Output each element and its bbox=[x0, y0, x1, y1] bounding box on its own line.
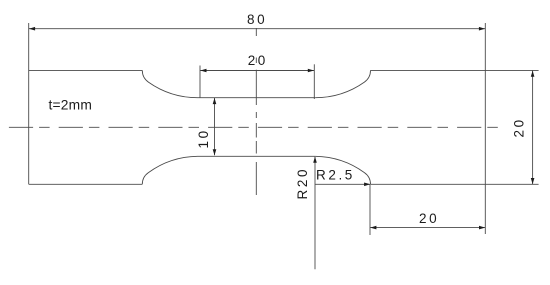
fillet top-left bbox=[142, 70, 197, 97]
gauge bottom edge bbox=[198, 155, 316, 157]
svg-text:10: 10 bbox=[196, 128, 211, 148]
left edge of specimen with dim-80 extension line bbox=[28, 23, 30, 184]
gauge top edge bbox=[198, 97, 316, 99]
vertical centerline dot between digits of 20 bbox=[255, 58, 257, 64]
fillet bottom-left bbox=[142, 156, 197, 184]
svg-text:20: 20 bbox=[248, 53, 268, 68]
dim 20 bottom left extension bbox=[369, 185, 371, 236]
top edge right segment with right dim-20 extension bbox=[371, 69, 539, 71]
fillet bottom-right bbox=[315, 156, 370, 184]
bottom edge left segment bbox=[29, 183, 143, 185]
svg-text:t=2mm: t=2mm bbox=[49, 98, 93, 113]
right edge of specimen with dim-80 and bottom dim-20 extension line bbox=[484, 23, 486, 234]
vertical centerline segment above dim text bbox=[255, 28, 257, 36]
top edge left segment bbox=[29, 69, 143, 71]
dim 20 gauge left extension bbox=[199, 66, 201, 98]
arrow dim20 bottom right bbox=[479, 226, 485, 230]
svg-text:R2.5: R2.5 bbox=[316, 168, 355, 183]
arrow dim20 gauge left bbox=[200, 69, 206, 73]
dim 20 bottom line bbox=[370, 227, 485, 229]
fillet top-right bbox=[315, 70, 370, 97]
bottom edge right segment with right dim-20 extension bbox=[371, 183, 539, 185]
vertical centerline long dash through gauge dim line bbox=[255, 70, 257, 105]
vertical centerline dash bbox=[255, 141, 257, 154]
R2.5 leader line bbox=[315, 183, 370, 185]
dim 80 line bbox=[29, 28, 485, 30]
dim 10 line bbox=[214, 98, 216, 155]
R20 leader line bbox=[314, 157, 316, 269]
arrow dim10 bottom bbox=[213, 149, 217, 155]
arrow dim20 gauge right bbox=[308, 69, 314, 73]
arrow dim80 left bbox=[29, 27, 35, 31]
horizontal centerline bbox=[9, 126, 499, 128]
arrow dim10 top bbox=[213, 98, 217, 104]
dim 20 gauge line bbox=[200, 70, 314, 72]
dim 20 right vertical line bbox=[532, 71, 534, 185]
svg-text:80: 80 bbox=[247, 12, 267, 27]
vertical centerline dash across horizontal centerline bbox=[255, 123, 257, 138]
arrow dim20 right top bbox=[531, 71, 535, 77]
vertical centerline bottom dash bbox=[255, 162, 257, 195]
vertical centerline dot bbox=[255, 112, 257, 118]
arrow R2.5 leader bbox=[364, 183, 370, 187]
arrow dim80 right bbox=[479, 27, 485, 31]
svg-text:20: 20 bbox=[512, 117, 527, 137]
svg-text:R20: R20 bbox=[295, 167, 310, 200]
dim 20 gauge right extension bbox=[313, 64, 315, 99]
arrow dim20 right bottom bbox=[531, 178, 535, 184]
arrow R20 leader bbox=[313, 157, 317, 163]
arrow dim20 bottom left bbox=[370, 226, 376, 230]
svg-text:20: 20 bbox=[419, 211, 439, 226]
